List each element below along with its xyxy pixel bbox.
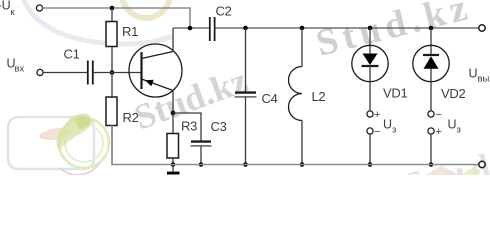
resistor R1 (106, 22, 117, 47)
svg-text:C3: C3 (211, 119, 227, 134)
wire collector up (172, 28, 174, 52)
wire input to C1 (43, 72, 87, 74)
svg-text:+: + (436, 126, 442, 138)
wire L2 bottom lead (301, 121, 303, 165)
svg-text:VD1: VD1 (383, 85, 407, 100)
svg-text:з: з (457, 125, 461, 136)
node C4 top junction (243, 26, 248, 31)
wire emitter to C3 (173, 113, 201, 141)
svg-text:R2: R2 (123, 110, 139, 125)
terminal VD1 minus (367, 128, 373, 134)
svg-text:−: − (436, 109, 442, 121)
wire VD2 top lead (430, 28, 432, 55)
watermark bird tile bottom-right (cut) (426, 166, 460, 175)
diode VD2 (413, 45, 449, 81)
wire C1 to base (93, 72, 142, 74)
svg-text:з: з (392, 125, 396, 136)
svg-text:U: U (448, 117, 457, 131)
node R3 rail junction (171, 162, 176, 167)
terminal VD2 minus (428, 111, 434, 117)
inductor L2 (289, 67, 303, 121)
wire bottom rail (112, 126, 479, 165)
wire top rail -Uk (43, 8, 190, 28)
node emitter junction (171, 111, 176, 116)
svg-text:R3: R3 (181, 119, 197, 134)
svg-text:U: U (383, 117, 392, 131)
wire L2 top lead (301, 28, 303, 67)
terminal Uvx (37, 69, 43, 75)
node VD2 rail junction (429, 162, 434, 167)
wire emitter down (172, 91, 174, 114)
svg-text:L2: L2 (312, 89, 326, 104)
svg-text:C4: C4 (262, 91, 278, 106)
node base junction (110, 70, 115, 75)
watermark bird logo bottom-left (8, 113, 109, 175)
svg-text:-U: -U (0, 0, 11, 13)
node VD2 top junction (429, 26, 434, 31)
svg-text:C2: C2 (216, 4, 232, 19)
wire R1 bottom lead (111, 47, 113, 73)
node junction -Uk feed (188, 26, 193, 31)
ground (172, 165, 174, 172)
capacitor C4 (235, 91, 256, 93)
wire R2 bottom lead to rail (111, 126, 113, 165)
diode VD1 (352, 45, 388, 81)
svg-text:VD2: VD2 (441, 86, 465, 101)
node C3 rail junction (199, 162, 204, 167)
wire VD1 top lead (369, 28, 371, 54)
terminal output top (479, 25, 485, 31)
svg-text:C1: C1 (64, 47, 80, 62)
node L2 top junction (300, 26, 305, 31)
wire R2 top lead (111, 73, 113, 98)
terminal VD1 plus (367, 111, 373, 117)
capacitor C3 (191, 140, 211, 142)
wire R1 top lead (111, 8, 113, 22)
wire collector rail y28 (173, 27, 479, 29)
wire R3 bottom lead (172, 158, 174, 165)
terminal -Uk (36, 5, 42, 11)
node C4 rail junction (243, 162, 248, 167)
wire C4 top lead (245, 28, 247, 93)
node VD1 rail junction (368, 162, 373, 167)
transistor VT1 (129, 44, 182, 97)
wire VD1 terminal to rail (369, 134, 371, 164)
svg-text:U: U (469, 66, 478, 80)
node VD1 top junction (368, 26, 373, 31)
resistor R2 (106, 97, 117, 126)
wire VD2 terminal to rail (430, 134, 432, 164)
svg-text:R1: R1 (122, 24, 138, 39)
wire VD1 bottom lead (369, 66, 371, 111)
terminal output bottom (479, 161, 485, 167)
capacitor C2 (210, 17, 215, 41)
terminal VD2 plus (428, 128, 434, 134)
svg-text:вых: вых (478, 74, 490, 85)
wire VD2 bottom lead (430, 69, 432, 111)
capacitor C1 (88, 61, 93, 85)
node junction top of R1 (110, 6, 115, 11)
node L2 rail junction (300, 162, 305, 167)
watermark ghost swirl top-left (24, 0, 170, 44)
svg-text:−: − (374, 126, 380, 138)
wire R3 top lead (172, 113, 174, 134)
svg-text:вх: вх (15, 63, 25, 74)
resistor R3 (167, 134, 179, 159)
wire C3 bottom lead (200, 146, 202, 165)
svg-text:+: + (374, 109, 380, 121)
wire C4 bottom lead (245, 97, 247, 165)
